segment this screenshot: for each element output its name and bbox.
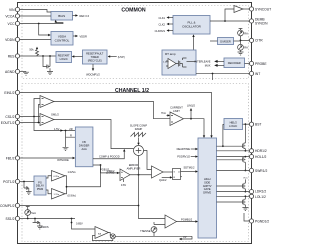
block BIAS bbox=[51, 12, 73, 21]
svg-text:R: R bbox=[70, 134, 72, 138]
svg-text:DRIVE: DRIVE bbox=[203, 191, 211, 195]
svg-text:LIM1/2: LIM1/2 bbox=[187, 104, 195, 108]
pin SWR1/2 bbox=[249, 168, 267, 172]
sawtooth symbol bbox=[131, 133, 147, 137]
svg-text:0.9Vo: 0.9Vo bbox=[54, 176, 60, 178]
wire U-ss feedback bbox=[93, 236, 113, 241]
common section dashed box bbox=[22, 6, 249, 79]
svg-text:VDDR: VDDR bbox=[80, 34, 87, 38]
svg-text:GM1/2: GM1/2 bbox=[51, 113, 59, 117]
svg-text:LDR1/2: LDR1/2 bbox=[255, 189, 266, 193]
block DECODER bbox=[224, 58, 245, 68]
error amplifier U3 bbox=[120, 163, 140, 181]
wire RT amp to INT pin bbox=[196, 72, 249, 74]
wire EOUT1/2 bbox=[20, 122, 40, 124]
signal MUX bbox=[205, 64, 224, 68]
svg-text:INTNODE: INTNODE bbox=[57, 158, 69, 162]
svg-text:DEADTIME: DEADTIME bbox=[177, 147, 191, 151]
svg-text:HDR1/2: HDR1/2 bbox=[255, 149, 267, 153]
pin PGT1/2 bbox=[3, 179, 19, 183]
svg-text:Q: Q bbox=[178, 172, 180, 174]
signal CLK1 bbox=[159, 16, 174, 20]
wire SS comparator output bbox=[115, 235, 192, 237]
pin EIN1/2 bbox=[4, 90, 19, 94]
svg-text:(0.9Vo): (0.9Vo) bbox=[106, 170, 114, 174]
svg-text:FB: FB bbox=[82, 140, 86, 144]
svg-text:1.1Vo: 1.1Vo bbox=[54, 194, 60, 196]
block PLL & OSCILLATOR bbox=[173, 16, 210, 35]
transistor FET C bbox=[243, 179, 246, 188]
svg-text:1.5V: 1.5V bbox=[54, 127, 60, 131]
wire PLL to RT amp bbox=[192, 34, 194, 50]
pin RES bbox=[8, 54, 20, 58]
label WDCMP bbox=[86, 64, 100, 76]
wire SW sense bbox=[217, 170, 250, 172]
svg-text:CS1/2: CS1/2 bbox=[5, 115, 14, 119]
channel title bbox=[115, 88, 149, 94]
wire PGND bbox=[244, 213, 249, 221]
op-amp U2 channel GM bbox=[40, 113, 59, 126]
wire PG comparators merge bbox=[46, 165, 101, 194]
wire error amp output bbox=[130, 174, 152, 176]
svg-text:PGND1/2: PGND1/2 bbox=[255, 219, 269, 223]
wire COMP node vertical bbox=[138, 156, 165, 219]
wire ramp to summer bbox=[137, 138, 139, 146]
block RESTART LOGIC bbox=[56, 52, 72, 63]
wire FET C source to LDR bbox=[245, 189, 247, 193]
wire VCC bbox=[20, 20, 63, 24]
transistor FET B bbox=[243, 157, 246, 163]
wire COMP & PGOOD bbox=[93, 149, 126, 159]
svg-text:CITR: CITR bbox=[255, 39, 263, 43]
svg-text:2R: 2R bbox=[69, 127, 72, 131]
svg-text:CLK1: CLK1 bbox=[159, 16, 166, 20]
channel section dashed box bbox=[22, 84, 249, 242]
svg-text:CONTROL: CONTROL bbox=[55, 38, 70, 42]
svg-text:REF 0.6: REF 0.6 bbox=[80, 14, 90, 18]
block FB DIVIDER bbox=[75, 127, 93, 167]
transistor Q-res bbox=[42, 55, 51, 68]
svg-text:SWR1/2: SWR1/2 bbox=[255, 169, 267, 173]
svg-text:EOUT1/2: EOUT1/2 bbox=[1, 121, 15, 125]
label VDDR bbox=[73, 34, 87, 38]
amp CURRENT LIMIT bbox=[170, 106, 184, 126]
svg-text:SS1/2: SS1/2 bbox=[6, 217, 15, 221]
common title bbox=[121, 8, 145, 14]
block GATE DRIVE bbox=[198, 138, 217, 238]
pin DEMB/SYNCIN bbox=[249, 17, 268, 25]
transistor Q-rt inside RT amp bbox=[176, 58, 187, 67]
wire U2 output to summer bbox=[54, 120, 134, 149]
svg-text:MUX: MUX bbox=[205, 64, 211, 68]
svg-text:RES: RES bbox=[8, 54, 16, 58]
label REF 0.6 bbox=[73, 14, 90, 18]
op-amp U-ss bbox=[95, 227, 109, 239]
pin CITR bbox=[249, 38, 263, 42]
block PG DELAY bbox=[34, 176, 46, 195]
svg-text:5uA: 5uA bbox=[31, 211, 36, 215]
pin SYNCOUT bbox=[249, 7, 271, 11]
svg-text:GATE: GATE bbox=[204, 187, 211, 191]
summer S1 bbox=[134, 146, 144, 156]
svg-text:DECODER: DECODER bbox=[228, 61, 241, 65]
wire FB1/2 into divider bbox=[20, 157, 76, 162]
wire SS to 0.85V comparator bbox=[71, 219, 95, 230]
transistor FET D bbox=[243, 196, 246, 205]
pin PGND1/2 bbox=[249, 219, 269, 223]
comparator PG lower bbox=[52, 189, 76, 200]
block DIVIDER bbox=[218, 38, 234, 45]
signal Tlim bbox=[161, 111, 170, 116]
svg-text:LOL1/2: LOL1/2 bbox=[255, 195, 266, 199]
pin FB1/2 bbox=[6, 156, 20, 160]
pin VDDN bbox=[5, 37, 19, 41]
wire LDR sense bbox=[217, 191, 250, 193]
svg-text:RA: RA bbox=[244, 46, 248, 50]
signal DEADTIME bbox=[177, 147, 198, 151]
svg-text:0.85V: 0.85V bbox=[76, 221, 83, 225]
svg-text:(UVP): (UVP) bbox=[118, 55, 125, 59]
current source IRA bottom bbox=[238, 44, 249, 50]
wire HB LOGIC to BST pin bbox=[243, 123, 250, 125]
svg-text:ADPTV: ADPTV bbox=[203, 184, 212, 188]
signal CLK2 bbox=[159, 22, 174, 26]
block RT amp bbox=[162, 50, 196, 75]
svg-text:RA: RA bbox=[244, 31, 248, 35]
wire AGND bbox=[20, 71, 26, 73]
wire U1 output bbox=[54, 102, 170, 119]
comparator PG upper bbox=[52, 170, 77, 181]
op-amp U1 channel bbox=[40, 96, 54, 108]
svg-text:VP: VP bbox=[183, 235, 187, 239]
wire VDDN to VDDA CONTROL bbox=[20, 39, 51, 41]
svg-text:BST: BST bbox=[255, 123, 261, 127]
svg-text:SYNCOUT: SYNCOUT bbox=[255, 7, 271, 11]
switch circle out bbox=[109, 233, 116, 239]
pin LDR1/2 bbox=[249, 189, 266, 193]
wire EOUT riser to U1 bbox=[39, 105, 41, 123]
transistor Q-ss bbox=[33, 219, 49, 230]
svg-text:50k: 50k bbox=[29, 48, 34, 52]
current source 5uA bbox=[25, 207, 36, 219]
pin VIN bbox=[9, 7, 20, 11]
buffer SYNCOUT bbox=[234, 6, 243, 13]
svg-text:LOGIC: LOGIC bbox=[229, 124, 237, 128]
svg-text:LIMIT: LIMIT bbox=[173, 109, 180, 113]
svg-text:LOGIC: LOGIC bbox=[60, 57, 68, 61]
wire gate B bbox=[217, 159, 244, 161]
wire gate A bbox=[217, 145, 244, 147]
svg-text:SDTM1/2: SDTM1/2 bbox=[184, 165, 196, 169]
wire MUX down across boundary bbox=[212, 73, 214, 80]
ground for Q-res bbox=[47, 68, 53, 74]
comparator PGOOD bbox=[165, 215, 177, 228]
svg-text:CLKPHS: CLKPHS bbox=[155, 29, 166, 33]
block RESET/FAULT TIMER bbox=[83, 50, 108, 64]
wire HB LOGIC input bbox=[222, 125, 224, 148]
svg-text:INT: INT bbox=[255, 72, 260, 76]
op-amp U-rt inside RT amp bbox=[163, 59, 176, 69]
svg-text:RAMP: RAMP bbox=[135, 127, 143, 131]
wire SYNCIN bbox=[210, 9, 249, 22]
svg-text:(0.9Vo): (0.9Vo) bbox=[68, 193, 76, 197]
ground FB divider bbox=[63, 147, 69, 150]
svg-text:DIVIDER: DIVIDER bbox=[79, 143, 90, 147]
svg-text:PGMB1/2: PGMB1/2 bbox=[181, 218, 193, 222]
svg-text:SYNCIN: SYNCIN bbox=[255, 21, 268, 25]
wire SS1/2 bbox=[20, 218, 75, 220]
svg-text:VCC: VCC bbox=[8, 22, 16, 26]
ground FET D bbox=[242, 205, 248, 211]
svg-text:COMP & PGOOD: COMP & PGOOD bbox=[99, 155, 120, 159]
svg-text:PROBE: PROBE bbox=[255, 62, 267, 66]
svg-text:WDCMP1/2: WDCMP1/2 bbox=[86, 72, 100, 76]
svg-text:RT amp: RT amp bbox=[165, 52, 176, 56]
wire UVP into RESET/FAULT bbox=[108, 55, 125, 59]
resistor 2R label bbox=[69, 127, 72, 131]
wire VIN to BIAS bbox=[20, 10, 51, 13]
svg-text:DIVIDER: DIVIDER bbox=[220, 39, 231, 43]
pin COMP1/2 bbox=[0, 203, 20, 207]
pin EOUT1/2 bbox=[1, 120, 20, 125]
wire RES bbox=[20, 55, 56, 57]
wire VCC branch to VDDA CONTROL bbox=[38, 23, 51, 37]
svg-text:COMMON: COMMON bbox=[121, 8, 145, 14]
svg-text:HB1/2: HB1/2 bbox=[230, 120, 238, 124]
pin PROBE bbox=[249, 61, 267, 65]
pin LOL1/2 bbox=[249, 194, 266, 199]
pin INT bbox=[249, 71, 260, 75]
current source TSENSE bbox=[140, 222, 165, 236]
signal CLKPHS bbox=[155, 29, 173, 33]
wire CS riser to U1 bbox=[34, 99, 40, 117]
svg-text:SSDIS: SSDIS bbox=[41, 225, 49, 229]
svg-text:PG: PG bbox=[38, 180, 42, 184]
wire FET A drain to BST bbox=[244, 124, 246, 143]
ground AGND bbox=[23, 72, 29, 76]
svg-text:1.02Vo: 1.02Vo bbox=[68, 170, 77, 174]
wire into latch R bbox=[162, 176, 173, 178]
signal PGDRV bbox=[177, 155, 198, 159]
signal VP bbox=[179, 235, 192, 240]
pin HDR1/2 bbox=[249, 149, 266, 153]
wire R tap bbox=[65, 130, 76, 148]
svg-text:(RECYCLE): (RECYCLE) bbox=[88, 58, 102, 62]
svg-text:0.6V: 0.6V bbox=[121, 183, 127, 187]
pin SS1/2 bbox=[6, 216, 20, 220]
wire gate D bbox=[217, 201, 244, 203]
svg-text:1.25V: 1.25V bbox=[163, 62, 169, 64]
wire HOL sense bbox=[217, 156, 250, 158]
label VCC bbox=[243, 178, 248, 180]
comparator PWM bbox=[152, 166, 164, 178]
svg-text:VCCA: VCCA bbox=[5, 14, 15, 18]
block HB LOGIC bbox=[224, 119, 243, 130]
ground Q-ss bbox=[37, 226, 43, 229]
svg-text:PWM: PWM bbox=[37, 187, 43, 191]
wire PGT to PG DELAY bbox=[20, 181, 34, 183]
wire EIN1/2 bbox=[20, 93, 213, 139]
svg-text:RESTART: RESTART bbox=[58, 53, 70, 57]
wire RT amp output bbox=[187, 61, 197, 63]
svg-text:Tlim: Tlim bbox=[161, 111, 166, 115]
wire HDR sense bbox=[217, 149, 250, 152]
svg-text:PGDRV1/2: PGDRV1/2 bbox=[177, 155, 190, 159]
pin BST bbox=[249, 122, 261, 126]
pin HOL1/2 bbox=[249, 155, 266, 159]
svg-text:VCC: VCC bbox=[243, 178, 248, 180]
svg-text:OSCILLATOR: OSCILLATOR bbox=[182, 25, 202, 29]
wire FET B source to SW bbox=[245, 162, 247, 171]
svg-text:AGND: AGND bbox=[5, 70, 15, 74]
wire FB div to error amp bbox=[93, 164, 120, 174]
svg-text:TIMER: TIMER bbox=[91, 55, 99, 59]
wire feedback divider top bbox=[34, 117, 75, 132]
svg-text:CLK2: CLK2 bbox=[159, 22, 166, 26]
svg-text:BIAS: BIAS bbox=[58, 14, 65, 18]
wire DECODER to PROBE pin bbox=[245, 63, 250, 65]
svg-text:HIGH: HIGH bbox=[204, 177, 211, 181]
pin VCC bbox=[8, 21, 20, 25]
block VDDA CONTROL bbox=[51, 32, 73, 46]
wire DIVIDER to CITR rail bbox=[234, 40, 241, 42]
wire summer to PWM comparator bbox=[144, 151, 152, 170]
label SLOPE COMP RAMP bbox=[130, 124, 147, 131]
signal INTERLEAVE bbox=[195, 60, 224, 64]
wire LOL sense bbox=[217, 195, 250, 197]
label PGB bbox=[100, 167, 114, 174]
wire PLL to DIVIDER bbox=[210, 40, 218, 42]
wire VCCA to BIAS bbox=[20, 15, 51, 17]
wire COMP1/2 bbox=[20, 205, 139, 207]
transistor FET A bbox=[243, 143, 246, 149]
svg-text:INTERLEAVE: INTERLEAVE bbox=[195, 60, 211, 64]
svg-text:HOL1/2: HOL1/2 bbox=[255, 155, 267, 159]
wire RESET to RESTART bbox=[72, 55, 83, 57]
wire current limit output bbox=[184, 118, 206, 138]
svg-text:FB1/2: FB1/2 bbox=[6, 156, 15, 160]
latch SR bbox=[173, 169, 182, 180]
pin CS1/2 bbox=[5, 114, 19, 118]
wire latch to driver block SDTM bbox=[181, 165, 199, 172]
svg-text:AAA: AAA bbox=[81, 147, 86, 151]
resistor 50k pullup on RES bbox=[29, 47, 38, 56]
svg-text:VIN: VIN bbox=[9, 8, 15, 12]
wire CS1/2 bbox=[20, 116, 40, 118]
wire PGOOD comp output PGMB bbox=[177, 218, 199, 223]
svg-text:PGT1/2: PGT1/2 bbox=[3, 180, 15, 184]
svg-text:CHANNEL 1/2: CHANNEL 1/2 bbox=[115, 88, 149, 94]
svg-text:TSENSE: TSENSE bbox=[140, 229, 151, 233]
ground under RA bbox=[238, 50, 244, 55]
pin AGND bbox=[5, 69, 20, 73]
transistor Q-pgt bbox=[24, 182, 29, 192]
svg-text:COMP1/2: COMP1/2 bbox=[0, 204, 15, 208]
wire buffer to SYNCOUT pin bbox=[243, 8, 249, 10]
wire PWM comp to latch bbox=[162, 171, 172, 173]
wire gate C bbox=[217, 185, 244, 187]
chip outline bbox=[18, 3, 252, 244]
signal LIM1/2 bbox=[187, 104, 195, 119]
label QH1/2 bbox=[159, 178, 167, 182]
current source IRA top bbox=[238, 29, 249, 36]
wire CITR rail bbox=[240, 36, 250, 45]
pin VCCA bbox=[5, 14, 19, 18]
svg-text:DELAY: DELAY bbox=[36, 184, 45, 188]
svg-text:SIDE: SIDE bbox=[204, 180, 210, 184]
svg-text:VDDN: VDDN bbox=[5, 38, 15, 42]
ground Q-pgt bbox=[26, 192, 32, 195]
svg-text:QH1/2: QH1/2 bbox=[159, 178, 167, 182]
reference 0.6V bbox=[121, 179, 127, 187]
svg-text:EIN1/2: EIN1/2 bbox=[4, 91, 14, 95]
